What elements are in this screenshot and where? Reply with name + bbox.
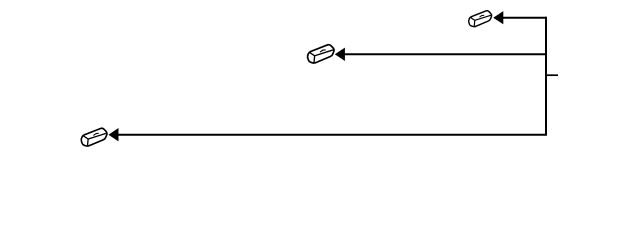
wire: stub tick on trunk [546,74,558,76]
connector: bottom bulb socket [81,128,107,146]
arrowhead: middle leader [335,48,345,61]
arrowhead: bottom leader [108,128,118,141]
wire: middle branch horizontal [345,53,547,55]
connector: top bulb socket [469,11,492,27]
wire: bottom branch horizontal [118,134,546,136]
wire: top branch horizontal [503,17,547,19]
wire: right vertical trunk [545,17,547,136]
connector: middle bulb socket [308,45,334,63]
arrowhead: top leader [493,11,503,24]
